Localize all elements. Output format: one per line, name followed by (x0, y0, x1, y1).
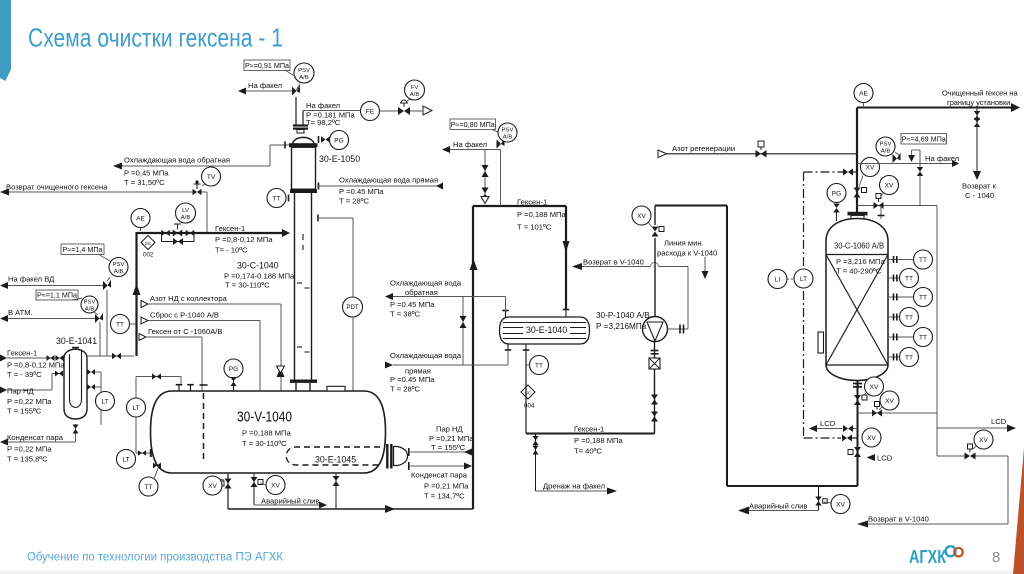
svg-text:Гексен-1: Гексен-1 (517, 198, 547, 207)
cooler nozzles (505, 311, 507, 317)
svg-text:Сброс с Р-1040 А/В: Сброс с Р-1040 А/В (150, 311, 219, 320)
svg-text:Дренаж на факел: Дренаж на факел (543, 482, 605, 491)
valve and PG gauge at column top (318, 136, 320, 143)
steam LP line to E-1041 (0, 387, 7, 394)
svg-text:Р =3,216 МПа: Р =3,216 МПа (836, 257, 886, 266)
svg-text:Р =0.45 МПа: Р =0.45 МПа (390, 300, 435, 309)
instrument AE on product (854, 84, 873, 103)
return to C-1040 branch (976, 108, 978, 172)
svg-text:30-Е-1045: 30-Е-1045 (315, 455, 356, 465)
flow element SC 004 (521, 385, 535, 399)
drum emergency drain with XV (253, 473, 255, 505)
svg-text:Пар НД: Пар НД (7, 387, 34, 396)
drum level bridle piping (136, 376, 181, 378)
wire flare knockout return header (141, 317, 148, 324)
svg-text:На факел: На факел (453, 140, 487, 149)
svg-text:Р =0,45 МПа: Р =0,45 МПа (124, 169, 169, 178)
svg-text:Возврат в V-1040: Возврат в V-1040 (583, 258, 644, 267)
svg-text:Обучение по технологии произво: Обучение по технологии производства ПЭ А… (27, 552, 283, 564)
vent line to FE (302, 111, 304, 126)
gauge PG on column top (827, 184, 846, 203)
svg-text:LCD: LCD (820, 419, 836, 428)
cooling water return from E-1040 (385, 293, 393, 300)
svg-text:XV: XV (885, 398, 894, 405)
vessel 30-V-1040 shell (151, 391, 386, 473)
nozzle cooling water supply (318, 183, 320, 190)
vessel 30-E-1041 shell (64, 349, 87, 419)
manway on drum (327, 386, 345, 391)
svg-text:TT: TT (273, 195, 281, 202)
svg-text:Гексен-1: Гексен-1 (7, 349, 37, 358)
svg-text:PSV: PSV (84, 299, 96, 305)
svg-text:Т = 40-290ºС: Т = 40-290ºС (836, 267, 882, 276)
phantom B column dash-dot lines (803, 172, 805, 438)
svg-text:Р =0,174-0.188 МПа: Р =0,174-0.188 МПа (224, 272, 295, 281)
instrument TT on column (288, 195, 290, 202)
svg-text:Охлаждающая вода обратная: Охлаждающая вода обратная (124, 156, 230, 165)
bottom XV valve (854, 395, 861, 400)
svg-text:Возврат в V-1040: Возврат в V-1040 (868, 515, 929, 524)
svg-text:30-V-1040: 30-V-1040 (237, 410, 292, 426)
svg-text:AE: AE (136, 215, 145, 222)
svg-text:Р≈=0,91 МПа: Р≈=0,91 МПа (245, 61, 289, 70)
return to V-1040 line (582, 266, 651, 268)
svg-text:Возврат к: Возврат к (962, 182, 997, 191)
column packing cross (826, 255, 888, 366)
svg-text:Охлаждающая вода: Охлаждающая вода (390, 351, 462, 360)
footer separator hairline (0, 572, 1024, 574)
main riser (bold) from E-1041 to feed line (135, 232, 137, 356)
return header to V-1040 (937, 455, 965, 457)
column TT instruments (888, 259, 914, 261)
wire nitrogen regeneration (658, 150, 667, 158)
svg-text:Т = 101ºС: Т = 101ºС (517, 223, 552, 232)
setpoint box P=0,91 МПа (244, 60, 290, 71)
hexene-1 feed main line (bold) (137, 232, 283, 234)
svg-text:Р =0,8-0,12 МПа: Р =0,8-0,12 МПа (7, 361, 65, 370)
svg-text:Р =0,22 МПа: Р =0,22 МПа (7, 397, 52, 406)
svg-text:Т = 30-110ºС: Т = 30-110ºС (225, 281, 270, 290)
flange ring upper (289, 143, 318, 147)
svg-text:A/B: A/B (85, 306, 95, 312)
svg-text:FV: FV (411, 85, 419, 91)
svg-text:Линия мин.: Линия мин. (664, 239, 704, 248)
svg-text:Р≈=4,69 МПа: Р≈=4,69 МПа (902, 134, 946, 143)
flare bypass branch (919, 150, 921, 206)
instrument FE (361, 102, 380, 121)
svg-text:30-Е-1050: 30-Е-1050 (319, 154, 360, 164)
steam to E-1045 (408, 448, 410, 456)
svg-text:Р =0.45 МПа: Р =0.45 МПа (390, 375, 435, 384)
svg-text:PG: PG (334, 137, 343, 144)
svg-text:TT: TT (919, 257, 927, 264)
orange corner wedge (1013, 448, 1024, 574)
check valve on nitrogen drop (277, 367, 285, 377)
svg-text:TV: TV (207, 174, 216, 181)
svg-text:30-С-1040: 30-С-1040 (237, 261, 279, 271)
svg-text:TT: TT (116, 321, 124, 328)
svg-text:границу установки: границу установки (947, 98, 1010, 107)
LCD arrow left (809, 425, 817, 432)
svg-text:30-Е-1040: 30-Е-1040 (526, 325, 567, 335)
svg-text:30-Е-1041: 30-Е-1041 (56, 336, 97, 346)
svg-text:Конденсат пара: Конденсат пара (411, 471, 468, 480)
drum bottom transfer line (228, 508, 473, 510)
svg-text:A/B: A/B (410, 92, 420, 98)
valve TV control globe (193, 189, 198, 196)
product line (bold) from column (857, 107, 1011, 109)
wire hexene from C-1060 header (139, 334, 146, 341)
column top flanges (293, 124, 308, 126)
svg-text:LT: LT (800, 276, 807, 283)
instrument AE on feed (131, 209, 150, 228)
svg-text:обратная: обратная (405, 288, 438, 297)
svg-text:Очищенный гексен на: Очищенный гексен на (942, 89, 1018, 98)
column 30-E-1050 shell (292, 147, 316, 189)
instrument TV (202, 184, 205, 186)
svg-text:PSV: PSV (880, 141, 892, 147)
svg-text:FE: FE (366, 108, 375, 115)
svg-text:XV: XV (885, 182, 894, 189)
svg-text:A/B: A/B (503, 134, 513, 140)
svg-text:Т = 28ºС: Т = 28ºС (390, 385, 421, 394)
drum bottom outlet with XV (227, 473, 229, 509)
svg-text:PDT: PDT (346, 304, 359, 311)
svg-text:Т = 155ºС: Т = 155ºС (7, 407, 42, 416)
svg-text:Пар НД: Пар НД (436, 425, 463, 434)
svg-text:XV: XV (271, 482, 280, 489)
cooled hexene line to pump (526, 433, 655, 435)
wire FE to FV valve (380, 110, 399, 112)
instrument LV A/B (180, 220, 183, 222)
svg-text:SC: SC (145, 241, 152, 247)
relief valve PSV to flare at column top (295, 97, 297, 125)
svg-text:Т = - 39ºС: Т = - 39ºС (7, 370, 42, 379)
relief PSV 4,69 МПа (857, 163, 952, 165)
feed line block valves and LV control valve (161, 230, 165, 237)
svg-text:Р =0,21 МПа: Р =0,21 МПа (429, 434, 474, 443)
svg-text:Т = 31,50ºС: Т = 31,50ºС (124, 178, 165, 187)
svg-text:Охлаждающая вода прямая: Охлаждающая вода прямая (339, 176, 438, 185)
svg-text:Схема очистки гексена - 1: Схема очистки гексена - 1 (28, 23, 283, 53)
svg-text:Аварийный слив: Аварийный слив (261, 497, 319, 506)
svg-text:002: 002 (143, 252, 154, 259)
svg-text:Р =0,21 МПа: Р =0,21 МПа (424, 482, 469, 491)
svg-text:Р =0,188 МПа: Р =0,188 МПа (242, 429, 292, 438)
drain to flare from cooler line (535, 434, 537, 492)
svg-text:XV: XV (867, 435, 876, 442)
column 30-C-1060 top flange (848, 212, 868, 216)
wire return purified hexene line (0, 189, 9, 196)
svg-text:На факел ВД: На факел ВД (8, 275, 54, 284)
cooling water supply to E-1040 (385, 362, 393, 369)
PSV isolation valves stack (484, 150, 486, 197)
column manway (818, 332, 824, 353)
svg-text:XV: XV (866, 164, 875, 171)
svg-text:XV: XV (870, 384, 879, 391)
svg-text:Т = 38ºС: Т = 38ºС (390, 310, 421, 319)
column top bypass line (857, 205, 937, 207)
svg-text:Р =0,188 МПа: Р =0,188 МПа (517, 210, 567, 219)
E-1041 level instrument piping (87, 369, 91, 375)
relief PSV 1,1 МПа to atmosphere (36, 290, 78, 300)
svg-text:Гексен-1: Гексен-1 (574, 425, 604, 434)
svg-text:расхода к V-1040: расхода к V-1040 (657, 249, 717, 258)
svg-text:TT: TT (919, 334, 927, 341)
svg-text:Азот НД с коллектора: Азот НД с коллектора (150, 294, 228, 303)
svg-text:LI: LI (775, 276, 781, 283)
flare connector open arrow (423, 106, 432, 115)
flow element SC 002 diamond (141, 236, 155, 250)
svg-text:LCD: LCD (991, 417, 1007, 426)
svg-text:На факел: На факел (248, 81, 282, 90)
svg-text:Р =0,188 МПа: Р =0,188 МПа (574, 436, 624, 445)
drum bottom valve right (335, 473, 337, 509)
svg-text:Возврат очищенного гексена: Возврат очищенного гексена (6, 183, 108, 192)
emergency drain from min-flow box (818, 486, 820, 511)
svg-text:PSV: PSV (298, 68, 310, 74)
drum right flange and head of E-1045 (386, 444, 388, 469)
svg-text:Т = 28ºС: Т = 28ºС (339, 197, 370, 206)
svg-text:TT: TT (905, 354, 913, 361)
svg-text:Гексен-1: Гексен-1 (215, 224, 245, 233)
svg-text:TT: TT (535, 362, 543, 369)
drum top nozzles (178, 386, 180, 392)
wire elbow down to hexene feed (202, 191, 208, 193)
svg-text:30-Р-1040 А/В: 30-Р-1040 А/В (596, 311, 650, 320)
svg-text:8: 8 (992, 549, 1000, 566)
svg-text:XV: XV (836, 501, 845, 508)
column 30-C-1040 body walls (294, 193, 296, 380)
instrument TT on cooler outlet (530, 356, 549, 375)
svg-text:С - 1040: С - 1040 (965, 191, 994, 200)
condensate line from E-1041 (75, 424, 77, 442)
hexene transfer loop bold lines (472, 206, 474, 509)
svg-text:АГХК: АГХК (909, 547, 947, 567)
svg-text:Р≈=1,1 МПа: Р≈=1,1 МПа (37, 290, 77, 299)
flange ring lower (290, 189, 317, 193)
svg-text:PG: PG (229, 366, 238, 373)
svg-text:TT: TT (919, 294, 927, 301)
svg-text:PG: PG (832, 190, 841, 197)
wire nitrogen LP header (141, 301, 148, 308)
svg-text:30-С-1060 А/В: 30-С-1060 А/В (834, 241, 884, 251)
svg-text:XV: XV (637, 213, 646, 220)
svg-text:Т = 135,8ºС: Т = 135,8ºС (7, 455, 48, 464)
pump suction line with valves and strainer (654, 341, 656, 434)
svg-text:Азот регенерации: Азот регенерации (672, 144, 735, 153)
svg-text:На факел: На факел (925, 154, 959, 163)
svg-text:Конденсат пара: Конденсат пара (7, 433, 64, 442)
cooling water bypass valve (462, 297, 464, 366)
vapour line E-1041 to riser (87, 355, 134, 357)
svg-text:Р≈=0,80 МПа: Р≈=0,80 МПа (451, 120, 495, 129)
riser isolation valve with XV (854, 188, 861, 193)
instrument PDT with tap lines (317, 215, 319, 222)
column bottom line (bold) (857, 381, 859, 487)
svg-text:TT: TT (905, 275, 913, 282)
cooler 30-E-1040 shell (500, 317, 590, 344)
instrument PSV A/B (296, 84, 300, 90)
gauge PG on drum with valve (224, 359, 243, 378)
column feed riser (bold) (856, 108, 858, 213)
svg-text:A/B: A/B (299, 75, 309, 81)
min flow loop bold box (655, 205, 727, 207)
svg-text:На факел: На факел (306, 101, 340, 110)
svg-text:TT: TT (905, 314, 913, 321)
column base flange into drum (290, 380, 317, 383)
svg-text:PSV: PSV (113, 262, 125, 268)
nozzle to cooling water return (270, 144, 289, 146)
pump 30-P-1040 A/B (643, 317, 668, 342)
right side LCD header (936, 206, 938, 457)
branch to LCD header with valve (858, 412, 938, 414)
svg-text:A/B: A/B (114, 269, 124, 275)
relief PSV 1,4 МПа to HP flare (61, 244, 104, 255)
column 30-C-1060 shell (826, 219, 888, 381)
svg-text:PSV: PSV (502, 127, 514, 133)
svg-text:Гексен от С -1060А/В: Гексен от С -1060А/В (148, 327, 222, 336)
internal distributor dashed (203, 393, 205, 459)
svg-text:Т = 155ºС: Т = 155ºС (431, 443, 466, 452)
cooler outlet down line (525, 350, 527, 434)
svg-text:Т= 40ºС: Т= 40ºС (574, 447, 602, 456)
svg-text:Р =0,22 МПа: Р =0,22 МПа (7, 445, 52, 454)
svg-text:XV: XV (208, 483, 217, 490)
svg-text:XV: XV (979, 437, 988, 444)
wire cooling water return line (122, 165, 270, 167)
svg-text:LT: LT (132, 405, 139, 412)
teal corner ribbon (0, 0, 11, 81)
svg-text:Т= 98,2ºС: Т= 98,2ºС (306, 118, 341, 127)
svg-text:Р≈=1,4 МПа: Р≈=1,4 МПа (62, 245, 102, 254)
hexene-1 feed to E-1041 (0, 355, 7, 362)
svg-text:Р =0.45 МПа: Р =0.45 МПа (339, 187, 384, 196)
drum TT at left head (139, 477, 158, 496)
svg-text:Р =3,216МПа: Р =3,216МПа (596, 322, 647, 331)
svg-text:Т= - 10ºС: Т= - 10ºС (215, 246, 248, 255)
svg-text:Охлаждающая вода: Охлаждающая вода (390, 279, 462, 288)
svg-text:LT: LT (101, 398, 108, 405)
control valve FV with actuator (398, 107, 404, 115)
svg-text:LV: LV (182, 208, 189, 214)
instrument TT on riser (111, 315, 130, 334)
svg-text:Т = 134,7ºС: Т = 134,7ºС (424, 492, 465, 501)
condensate from E-1045 (408, 462, 410, 470)
svg-text:Т = 30-110ºС: Т = 30-110ºС (242, 439, 287, 448)
svg-text:В АТМ.: В АТМ. (8, 308, 33, 317)
svg-text:A/B: A/B (881, 148, 891, 154)
bottom control valve with XV (854, 447, 861, 452)
svg-text:AE: AE (859, 90, 868, 97)
svg-text:Аварийный слив: Аварийный слив (749, 502, 807, 511)
column internals dashes (302, 234, 304, 240)
feed bypass loop with valve (161, 233, 163, 242)
wire flare line left (246, 90, 292, 92)
pump discharge riser (bold) min-flow (654, 238, 656, 317)
instrument FV A/B (407, 99, 410, 101)
column 30-E-1050 dome (292, 137, 315, 146)
internal heater 30-E-1045 dashed (286, 447, 380, 465)
svg-text:LT: LT (122, 456, 129, 463)
svg-text:A/B: A/B (181, 215, 191, 221)
instruments LI LT on phantom line (794, 269, 813, 288)
pump discharge to return line (668, 328, 689, 330)
svg-text:Р =0,8-0,12 МПа: Р =0,8-0,12 МПа (215, 235, 273, 244)
svg-text:TT: TT (145, 484, 153, 491)
svg-text:LCD: LCD (877, 454, 893, 463)
